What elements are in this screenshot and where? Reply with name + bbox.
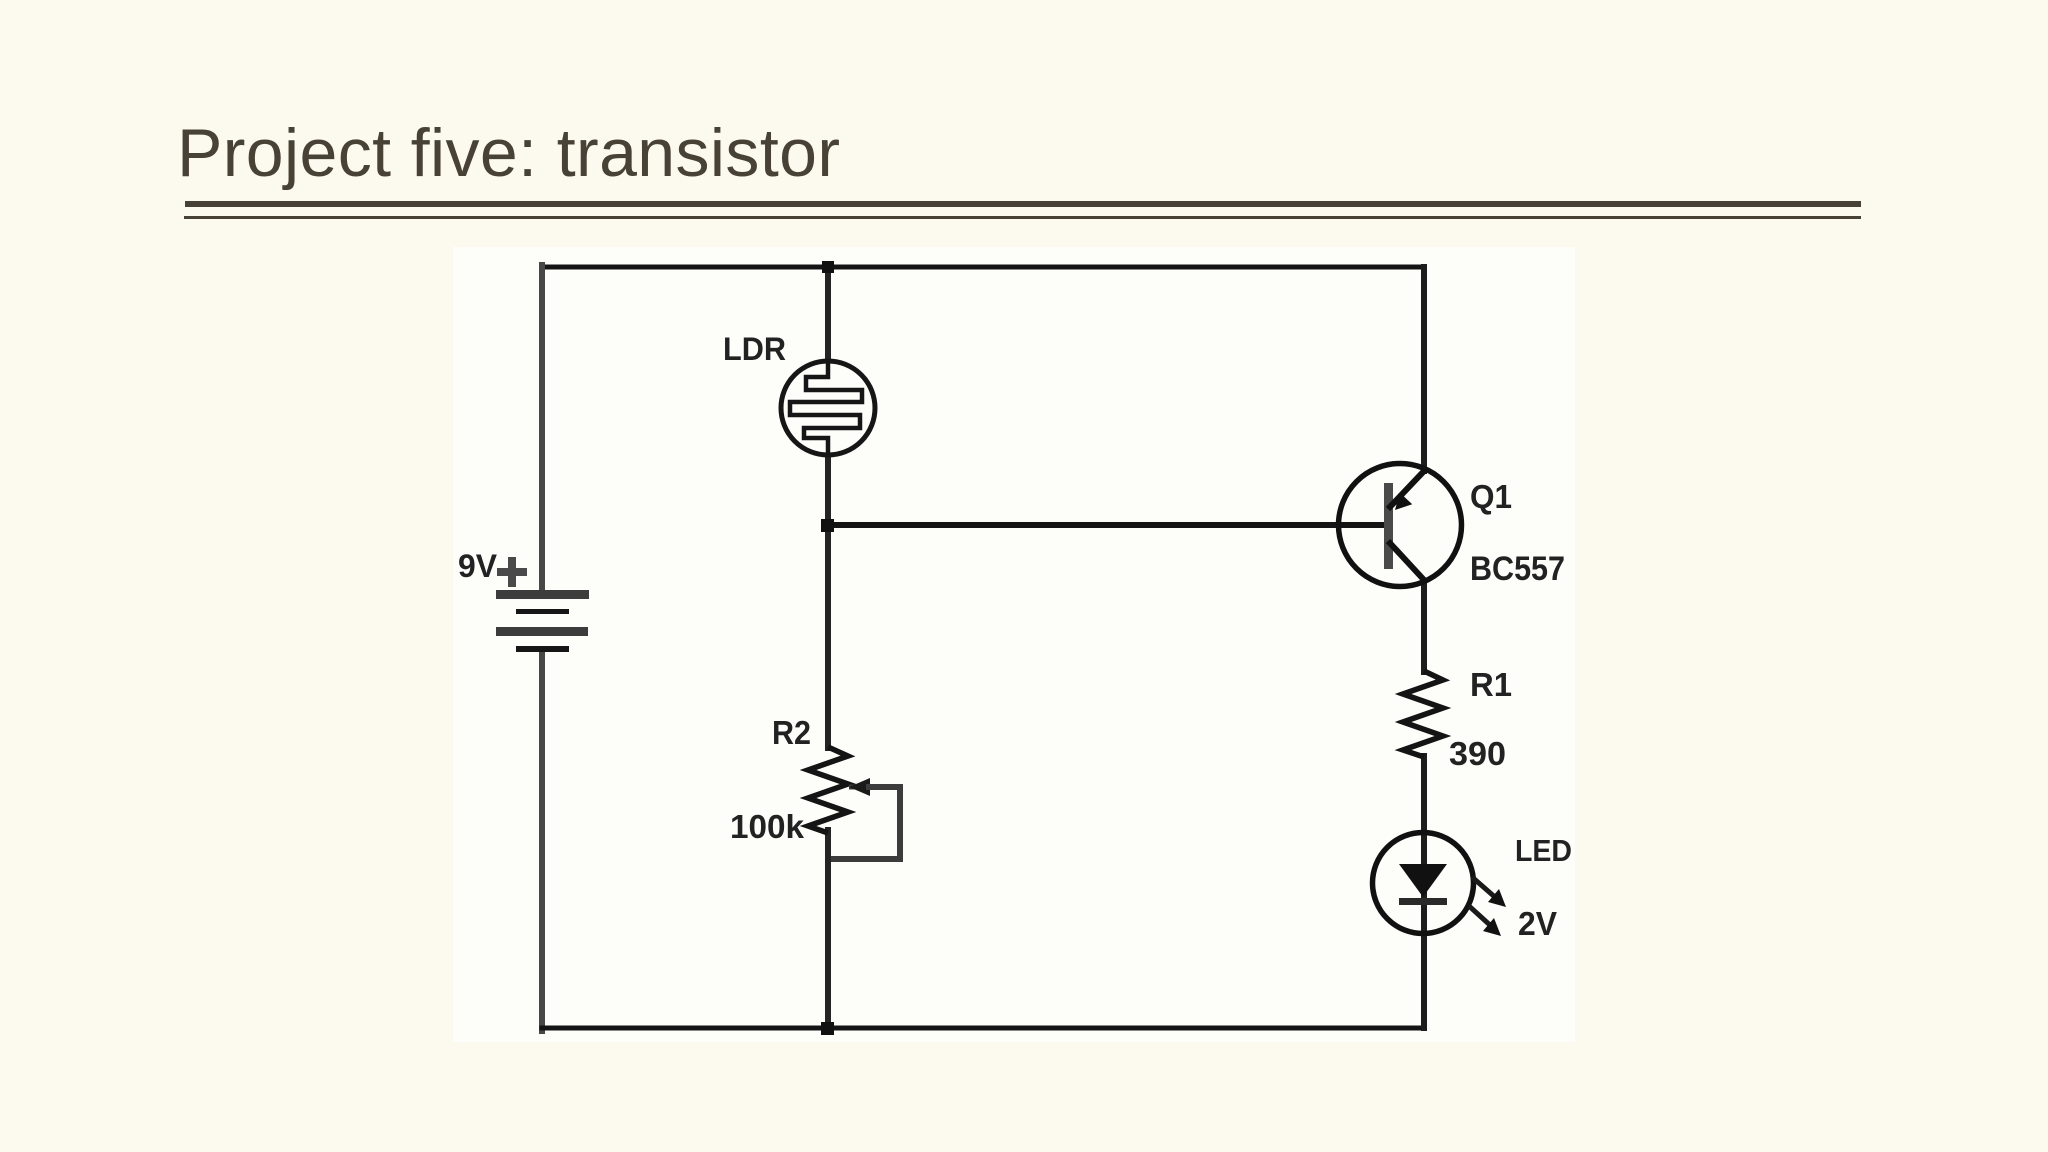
LDR serpentine track <box>790 363 862 453</box>
wire base (junction to Q1 base) <box>828 522 1384 528</box>
LED light arrow 2 <box>1469 906 1491 926</box>
wire right rail lower (R1 to LED to bottom) <box>1421 756 1427 1028</box>
potentiometer R2 wiper arrow <box>849 785 866 790</box>
wire right rail mid (collector to R1) <box>1421 581 1427 672</box>
wire bottom rail <box>542 1026 1424 1031</box>
wire top rail <box>542 265 1424 270</box>
battery plate 4 short <box>516 646 569 652</box>
white schematic panel <box>453 247 1575 1042</box>
svg-text:9V: 9V <box>458 548 498 584</box>
potentiometer R2 wiper wire <box>831 787 900 859</box>
battery plate 2 short <box>516 609 569 614</box>
wire right rail upper <box>1421 267 1427 471</box>
node junction base <box>821 519 834 532</box>
wire left rail lower <box>539 652 545 1031</box>
node junction bottom <box>821 1022 834 1035</box>
potentiometer R2 zigzag <box>808 747 848 833</box>
transistor Q1 emitter arrow <box>1395 493 1412 510</box>
resistor R1 zigzag <box>1403 671 1443 757</box>
transistor Q1 emitter diagonal <box>1388 470 1425 509</box>
svg-text:R2: R2 <box>772 714 811 751</box>
title rule thin <box>184 216 1861 219</box>
transistor Q1 base bar <box>1384 483 1393 569</box>
LED cathode bar <box>1399 898 1447 905</box>
transistor Q1 collector diagonal <box>1388 541 1425 581</box>
slide title <box>177 114 840 192</box>
wire middle rail LDR to base junction <box>825 453 831 527</box>
battery plus sign <box>497 557 527 587</box>
LED light arrow 1 <box>1472 877 1496 898</box>
svg-text:100k: 100k <box>730 808 805 845</box>
transistor Q1 circle <box>1339 464 1462 587</box>
svg-text:R1: R1 <box>1470 666 1512 703</box>
svg-text:LED: LED <box>1515 833 1572 868</box>
LED triangle <box>1399 864 1447 897</box>
svg-text:2V: 2V <box>1518 905 1557 942</box>
svg-text:BC557: BC557 <box>1470 550 1565 588</box>
LED circle <box>1373 833 1474 934</box>
svg-text:390: 390 <box>1449 735 1506 772</box>
svg-text:LDR: LDR <box>723 331 786 367</box>
title rule thick <box>185 201 1861 207</box>
wire middle rail R2 to bottom <box>825 830 831 1028</box>
node junction top <box>822 261 834 273</box>
wire left rail upper <box>539 265 545 591</box>
wire middle rail junction to R2 <box>825 525 831 748</box>
battery plate 3 long <box>496 627 588 636</box>
battery 9V plate 1 long <box>496 590 589 599</box>
LDR circle <box>781 361 875 455</box>
svg-text:Q1: Q1 <box>1470 478 1512 515</box>
wire middle rail top (top rail to LDR) <box>825 267 831 363</box>
